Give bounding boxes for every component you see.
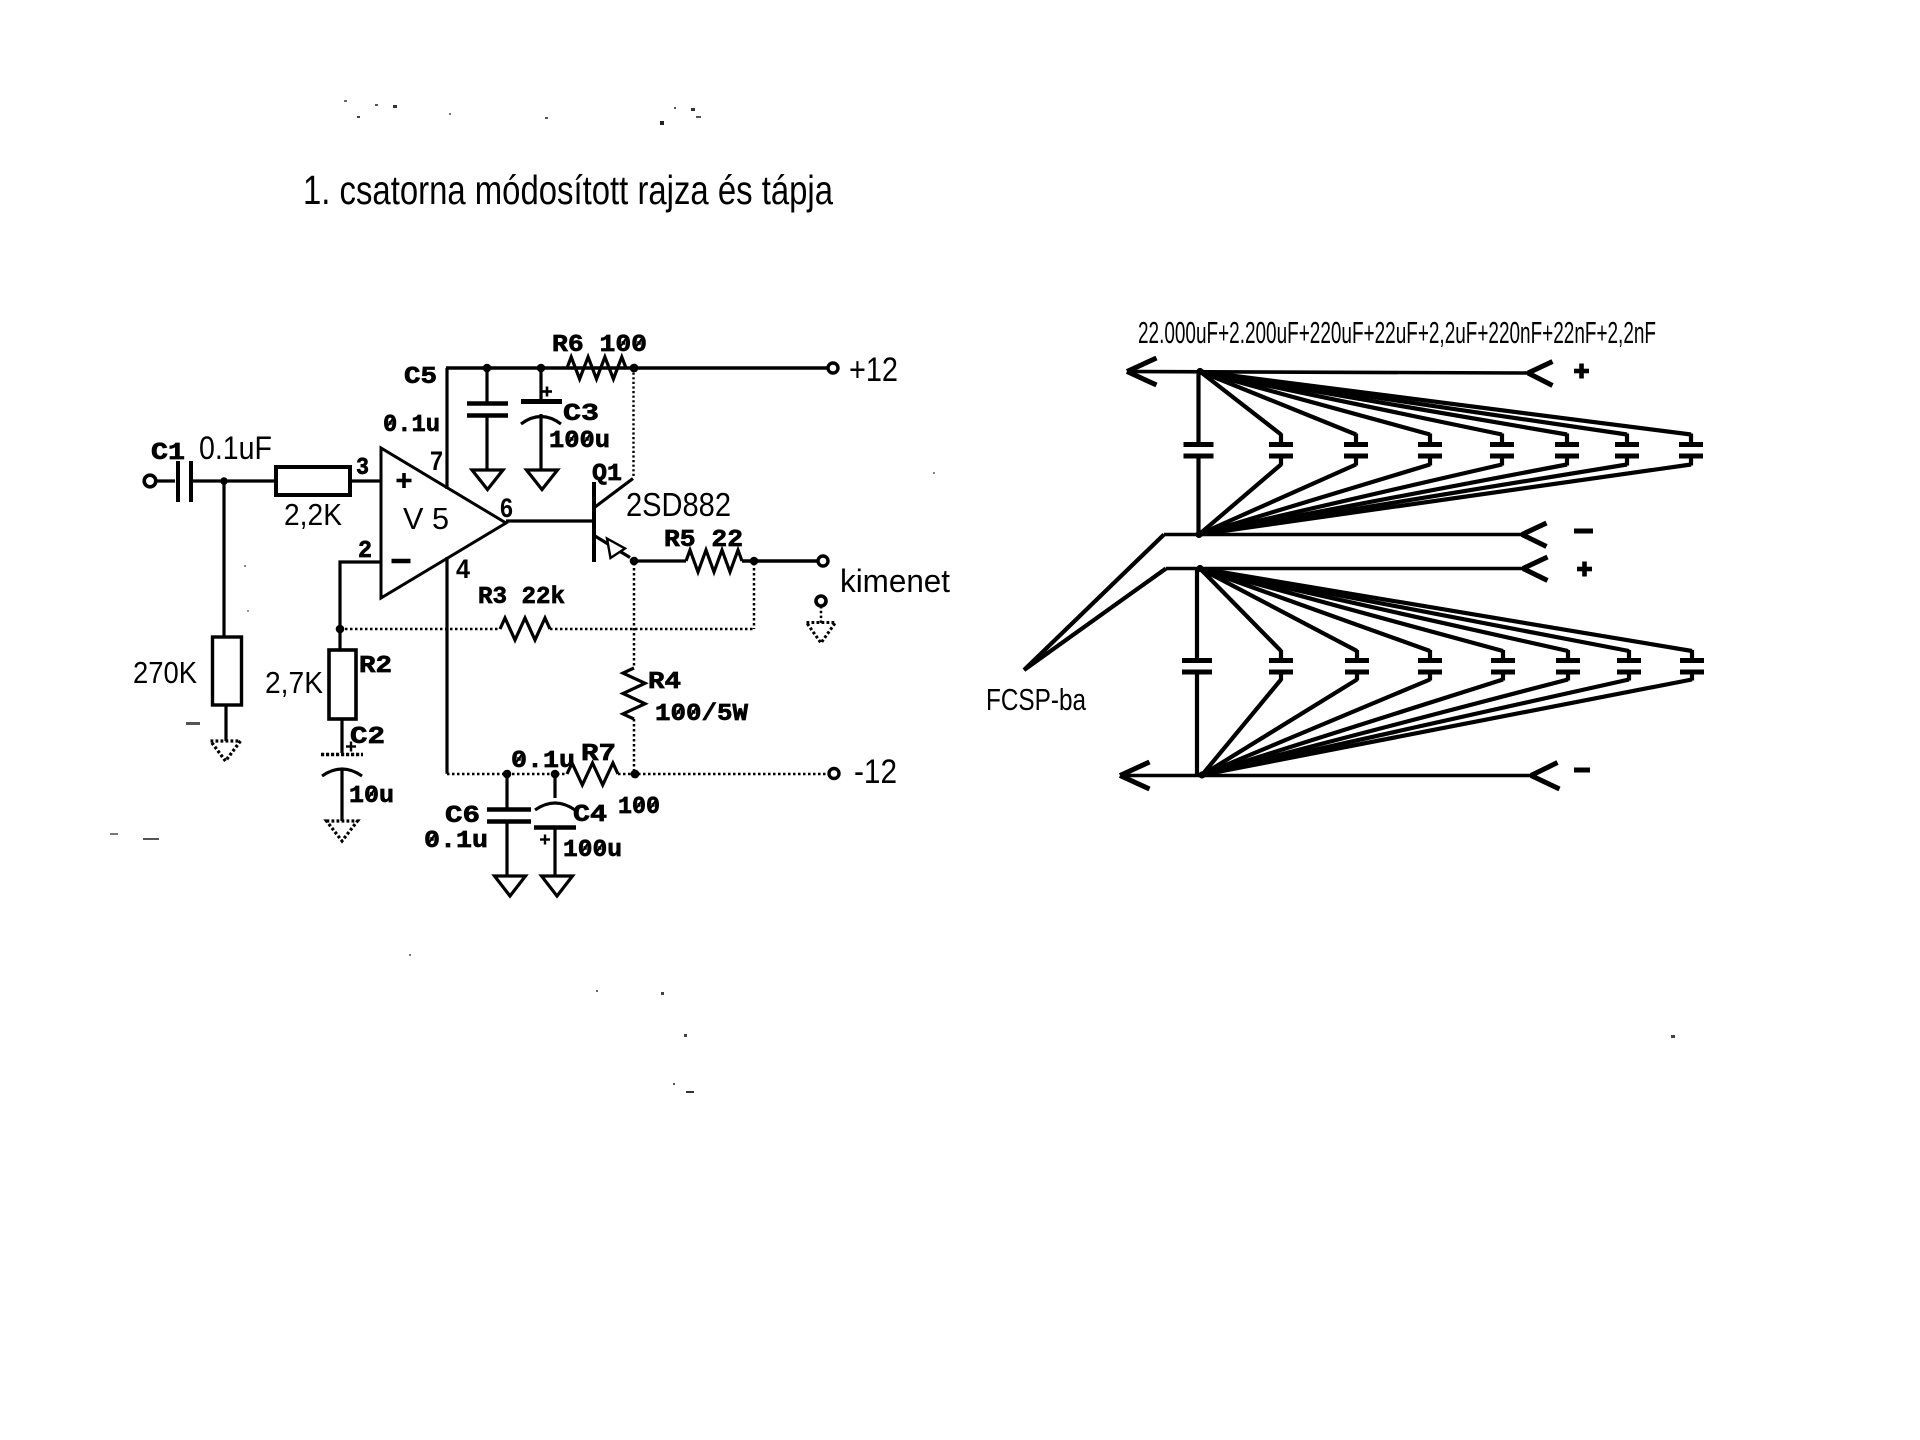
wire node B to R2 (338, 629, 341, 650)
ground (270K) (211, 741, 241, 761)
+12 terminal (828, 363, 838, 373)
svg-text:R6 100: R6 100 (552, 332, 647, 359)
junction R4/-12 (631, 770, 640, 779)
svg-text:7: 7 (430, 446, 443, 476)
capacitor C2 electrolytic (321, 753, 363, 757)
capacitor C3 electrolytic (539, 368, 542, 400)
C4 plus marker (540, 838, 550, 840)
wire Q1 collector to +12 (dotted) (632, 368, 634, 478)
wire R2 to C2 (340, 719, 343, 753)
capacitor C4 electrolytic (553, 774, 556, 798)
wire R5 to kimenet terminal (742, 559, 818, 562)
capacitor CT6 (1200, 372, 1567, 435)
svg-text:0.1uF: 0.1uF (199, 430, 272, 466)
svg-text:10u: 10u (349, 783, 394, 810)
svg-text:C5: C5 (404, 364, 437, 391)
resistor R4 (dotted leads) (633, 563, 636, 668)
bottom bank - rail (1120, 774, 1531, 778)
capacitor CB8 (1200, 569, 1692, 652)
top bank top hub (1196, 368, 1203, 375)
C3 plus marker (542, 390, 552, 393)
-12 rail wire (dotted) (447, 773, 567, 776)
capacitor CB5 (1200, 569, 1503, 652)
svg-text:FCSP-ba: FCSP-ba (986, 682, 1087, 717)
pin 4 wire down (445, 557, 448, 774)
wire R1 to op-amp pin3 (350, 479, 381, 482)
wire bottom bank + to FCSP (1024, 569, 1166, 671)
ground (kimenet) (807, 623, 836, 644)
capacitor CB2 (1200, 569, 1281, 652)
svg-text:V 5: V 5 (403, 501, 449, 536)
capacitor CB3 (1200, 569, 1357, 652)
capacitor CT5 (1200, 372, 1502, 435)
junction C6/-12 (503, 770, 512, 779)
capacitor CT8 (1200, 372, 1691, 435)
svg-text:C4: C4 (573, 802, 607, 829)
ground (C4) (542, 876, 573, 896)
wire emitter to R5 (634, 559, 686, 562)
kimenet ground terminal (816, 596, 826, 606)
svg-text:-12: -12 (854, 753, 897, 791)
svg-text:2SD882: 2SD882 (626, 486, 731, 523)
capacitor CT1 (1196, 372, 1200, 443)
bottom bank - rail right arrowhead (1531, 763, 1558, 776)
svg-text:2,7K: 2,7K (265, 665, 323, 700)
C2 plus marker (346, 745, 356, 747)
svg-text:100u: 100u (549, 428, 610, 455)
svg-text:R5 22: R5 22 (664, 527, 743, 554)
svg-text:22.000uF+2.200uF+220uF+22uF+2,: 22.000uF+2.200uF+220uF+22uF+2,2uF+220nF+… (1138, 315, 1656, 350)
kimenet terminal (818, 556, 828, 566)
resistor R7 (567, 763, 618, 785)
svg-text:R3 22k: R3 22k (478, 584, 565, 611)
kimenet ground stem (820, 606, 823, 623)
svg-text:+12: +12 (849, 351, 898, 389)
resistor R6 (567, 357, 626, 379)
wire top bank - to FCSP (1024, 535, 1164, 671)
bottom bank plus sign (1577, 567, 1592, 572)
svg-text:0.1u: 0.1u (383, 412, 440, 439)
svg-text:R7: R7 (581, 741, 616, 768)
ground (C5) (472, 470, 503, 490)
svg-text:100/5W: 100/5W (655, 701, 749, 728)
svg-text:100: 100 (618, 794, 660, 821)
Q1 emitter arrow (607, 539, 625, 559)
top bank + rail left arrow (1127, 358, 1157, 372)
capacitor C1 (176, 461, 180, 502)
svg-text:R2: R2 (359, 653, 392, 680)
node A junction (220, 477, 228, 485)
junction R5/feedback (750, 557, 759, 566)
op-amp plus input marker (397, 479, 412, 483)
capacitor CT3 (1200, 372, 1356, 435)
top bank plus sign (1574, 369, 1589, 374)
resistor R3 (500, 618, 550, 640)
svg-text:C1: C1 (151, 440, 185, 467)
wire node A down to 270K (222, 481, 225, 637)
input terminal (144, 475, 156, 487)
op-amp U1 V5 (381, 448, 506, 598)
svg-text:C2: C2 (350, 724, 385, 751)
feedback wire down (dotted) (753, 563, 756, 629)
node B junction (336, 625, 345, 634)
capacitor C6 (505, 774, 508, 808)
top bank + rail right arrowhead (1528, 362, 1553, 374)
top bank bottom hub (1195, 531, 1202, 538)
bottom bank + rail (1166, 567, 1523, 571)
junction C3/rail (537, 364, 546, 373)
svg-text:2,2K: 2,2K (284, 497, 342, 532)
feedback net R3 wire (dotted) (340, 628, 500, 631)
resistor 2,2K (R1) (276, 467, 350, 495)
svg-text:Q1: Q1 (592, 461, 622, 488)
svg-text:0.1u: 0.1u (511, 748, 575, 775)
ground (C3) (527, 470, 558, 490)
wire pin2 left and down to node B (340, 562, 381, 629)
junction R6/collector (630, 364, 639, 373)
capacitor CB7 (1200, 569, 1629, 652)
capacitor CB6 (1200, 569, 1568, 652)
svg-text:0.1u: 0.1u (424, 828, 488, 855)
junction C5/rail (483, 364, 492, 373)
svg-text:4: 4 (456, 554, 470, 584)
top bank minus sign (1574, 529, 1593, 534)
bottom bank top hub (1196, 565, 1203, 572)
-12 terminal (829, 769, 839, 779)
resistor R5 (686, 550, 742, 572)
bottom bank + rail right arrowhead (1523, 557, 1548, 569)
svg-text:6: 6 (500, 493, 513, 523)
pin 7 wire to +12 rail (445, 368, 448, 489)
capacitor CT7 (1200, 372, 1627, 435)
top bank - rail right arrowhead (1522, 523, 1547, 535)
wire C1 to node A (193, 479, 276, 482)
ground (C2) (327, 821, 358, 841)
svg-text:3: 3 (356, 455, 369, 482)
resistor R2 (329, 650, 356, 719)
+12 rail wire (446, 366, 828, 369)
bottom bank bottom hub (1198, 771, 1205, 778)
bottom bank - rail left arrow (1120, 762, 1150, 776)
capacitor CB4 (1200, 569, 1430, 652)
wire input to C1 (155, 479, 175, 482)
svg-text:C3: C3 (563, 401, 599, 428)
capacitor CT2 (1200, 372, 1281, 435)
capacitor CT4 (1200, 372, 1430, 435)
transistor Q1 (592, 482, 596, 562)
scan noise specks (decorative) (344, 100, 347, 102)
junction C4/-12 (551, 770, 560, 779)
svg-text:C6: C6 (445, 803, 480, 830)
svg-text:270K: 270K (133, 655, 197, 690)
bottom bank minus sign (1574, 768, 1590, 773)
capacitor CB1 (1195, 569, 1199, 659)
svg-text:1. csatorna módosított rajza é: 1. csatorna módosított rajza és tápja (303, 167, 833, 213)
ground (C6) (495, 876, 526, 896)
op-amp minus input marker (392, 559, 411, 564)
svg-text:R4: R4 (648, 669, 681, 696)
resistor 270K (213, 637, 242, 705)
wire 270K to ground (224, 705, 227, 741)
svg-text:100u: 100u (563, 837, 622, 864)
capacitor C5 (485, 368, 488, 402)
top bank + rail (1127, 372, 1528, 374)
junction emitter node (630, 557, 639, 566)
top bank - rail (1164, 533, 1522, 537)
wire op-amp output to Q1 base (506, 519, 594, 522)
svg-text:kimenet: kimenet (840, 563, 950, 599)
